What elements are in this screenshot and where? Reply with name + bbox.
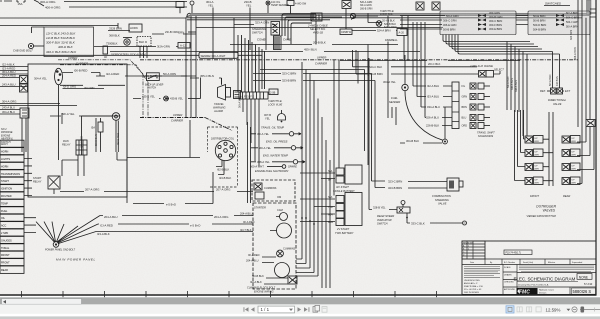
drops from switch area <box>234 18 266 59</box>
outrigger valve F4 <box>525 177 543 185</box>
regulator box <box>288 276 297 284</box>
pid number cell <box>504 250 532 255</box>
wire ORN arrow left <box>178 31 196 35</box>
terminal circle top <box>190 1 194 13</box>
wire riser x368 <box>367 58 369 165</box>
border ruler ticks <box>22 291 437 297</box>
battery group2 wires <box>300 195 335 224</box>
wire 56I riser <box>61 113 63 124</box>
cluster2 right pin labels <box>566 11 579 29</box>
harness elbow lines <box>186 13 190 18</box>
throttle bell symbol <box>278 110 286 122</box>
wire 323-C BRN lower <box>372 74 448 184</box>
button last page <box>304 307 309 312</box>
cluster2 arrows <box>556 14 564 26</box>
title text ELEC SCHEMATIC DIAGRAM <box>514 273 597 282</box>
button first page <box>244 307 249 312</box>
button prev page <box>251 307 255 312</box>
wire long bus y18 <box>0 17 186 19</box>
solenoid pair row5 <box>470 123 490 129</box>
wires from BLK D down <box>140 46 147 58</box>
junction ring component <box>112 113 120 121</box>
junction dots on risers <box>301 217 315 225</box>
wire I23-A BLK long <box>96 232 253 236</box>
stubs from terminal column <box>24 159 36 233</box>
bundle risers far <box>322 117 330 288</box>
outrigger valve R1 <box>562 136 580 144</box>
wires run relay <box>82 116 121 152</box>
zone boundary UPPER/CARRIER dash-dot <box>68 56 578 66</box>
cummins block bolt label <box>247 287 276 294</box>
disclaimer microtext right <box>519 266 594 271</box>
cab ground bolt <box>13 43 34 52</box>
wire CC-B RED <box>145 74 159 78</box>
battery group2 label <box>335 227 354 235</box>
outrigger valve F1 <box>525 136 543 144</box>
elbow corner 20I-B BLK <box>367 45 369 77</box>
aux contact box 2 <box>255 192 264 199</box>
wire I00-B RED <box>63 69 101 77</box>
cluster1 outline <box>440 11 516 35</box>
wire 204-A BLU long <box>100 215 253 219</box>
engine dashed enclosure <box>253 203 296 289</box>
connector 2-0B <box>269 89 278 95</box>
cell divider lines <box>462 265 596 295</box>
scale drawn rows <box>503 266 517 291</box>
wire list box <box>44 27 94 57</box>
outrigger valve R3 <box>562 163 580 171</box>
left harness connector B <box>20 84 28 92</box>
spare fuel shutdown <box>250 165 297 173</box>
ignition switch cylinder <box>55 68 63 84</box>
fuse 15A lower <box>91 122 103 132</box>
wire 455-C BLN <box>190 74 222 85</box>
risers from heater <box>22 118 26 152</box>
wires strip down <box>243 99 259 166</box>
page combo box <box>258 306 295 313</box>
wire 328-B YEL <box>369 206 397 210</box>
wire y27.5 <box>196 27 443 29</box>
start relay label <box>33 176 42 184</box>
engine stub labels <box>240 212 264 285</box>
solenoid pair row2 <box>470 94 490 100</box>
gray harness bus horizontal <box>190 13 589 16</box>
wire 304-A BLU upper-d <box>0 110 20 114</box>
wire riser from junction <box>444 107 446 139</box>
junction box top a <box>416 2 424 10</box>
part number <box>572 288 596 294</box>
horn bar box <box>129 24 142 32</box>
label travel warning alarm <box>213 102 226 113</box>
harness corner feeds to trans shift <box>413 86 426 118</box>
wire riser to rear steer switch <box>368 58 370 210</box>
cluster2 left pin labels <box>533 14 546 32</box>
connector cluster shade left <box>440 11 516 35</box>
engine aux dashed box <box>252 180 295 201</box>
wire 524-A BRN <box>352 29 397 33</box>
wire bolt to list box <box>34 45 44 47</box>
ground bolt fan wires <box>36 216 100 244</box>
wire 323-B BRN lower <box>375 81 447 191</box>
header row <box>462 241 596 265</box>
pin function labels <box>462 85 468 128</box>
revision table <box>462 241 485 259</box>
trans shift wires to strip <box>442 86 452 126</box>
cluster2 outline <box>528 11 590 35</box>
combination steering valve <box>447 178 463 191</box>
terminal strip TB1 <box>239 92 268 99</box>
fuse block vertical <box>126 64 128 76</box>
engine stub wires <box>262 217 288 285</box>
run relay label <box>62 139 71 147</box>
drawing number line <box>517 282 578 287</box>
battery group1 wires <box>300 169 335 182</box>
vertical risers inside panel <box>59 85 119 160</box>
layout button 4 disabled <box>536 307 541 312</box>
icon export page <box>313 305 320 312</box>
wire 230-B YEL drop <box>244 0 252 50</box>
connector box A-20 <box>397 29 407 36</box>
steering switch <box>252 27 266 35</box>
wire 204-A RED <box>0 74 20 78</box>
outrigger valves title <box>527 205 557 219</box>
front valve right stubs <box>543 139 553 181</box>
steering switch contacts box <box>271 22 280 36</box>
FMC logo <box>517 288 538 295</box>
switches header <box>544 2 570 6</box>
wire y17.5 <box>187 17 582 19</box>
horn component circle <box>124 39 130 45</box>
rear feeder risers <box>577 127 594 184</box>
gauge eng oil press <box>251 140 303 151</box>
label 2-4WD CABLE SELECT SW <box>307 24 328 35</box>
zoom slider knob <box>581 307 585 313</box>
trans shift wire rows <box>426 84 440 128</box>
gauge eng water temp <box>251 154 305 165</box>
connector cluster shade right <box>528 11 590 35</box>
battery feed risers <box>334 60 339 196</box>
wires to throttle lock <box>368 13 402 28</box>
wire list black wires <box>46 32 77 55</box>
distributor and coil <box>211 138 236 161</box>
wire I22-A BLK <box>0 63 28 67</box>
layout button 3 disabled <box>527 307 532 312</box>
cluster1 right pin labels <box>489 11 503 31</box>
far right verticals <box>578 0 590 127</box>
wire 323-C BRN upper <box>253 72 372 76</box>
relay box BLK D dashed <box>137 37 151 47</box>
wire 304-A ORG bottom left <box>0 100 77 106</box>
distributor leads <box>216 160 224 175</box>
travel warning alarm speaker <box>218 78 231 100</box>
wire 50I-A ORN <box>159 72 200 99</box>
wire 520-A BRN <box>384 26 397 29</box>
drawing bottom border <box>0 294 597 296</box>
label EXT <box>563 89 571 93</box>
comb w box <box>340 29 352 35</box>
wire 56I-A YEL <box>50 112 112 116</box>
solenoid pair row3 <box>470 104 490 110</box>
tolerance rows <box>464 280 484 294</box>
big rect region D right <box>127 120 200 203</box>
wire 312A-GRN <box>94 45 178 49</box>
rear steer indicator lamp <box>401 201 405 208</box>
bundle risers right of engine <box>302 62 318 276</box>
wire 304-A YEL drop <box>206 0 214 59</box>
backup lever switch label <box>145 84 164 90</box>
wire 231-B ORG <box>152 30 196 34</box>
layout button 2 disabled <box>517 307 522 312</box>
logo division text <box>539 289 555 295</box>
coil component box <box>234 91 241 99</box>
junction node double circle <box>443 139 448 144</box>
toolbar background <box>0 304 600 314</box>
heavy elbow corners to steering bundle <box>282 14 316 44</box>
status strip <box>0 316 600 319</box>
wire I0I-D ORG <box>63 85 105 89</box>
stub corner <box>32 27 45 33</box>
left terminal column boxes <box>0 140 24 273</box>
inline connector circle <box>350 13 355 19</box>
alternator small circle <box>277 250 284 257</box>
wire 524-B BRN <box>356 50 478 76</box>
harness risers x412-425 <box>413 22 425 118</box>
power panel ground bolt <box>53 242 59 248</box>
wire y19.5 <box>187 19 330 21</box>
4wd switch box <box>287 1 307 6</box>
button next page <box>298 307 302 312</box>
tolerance cell microtext <box>464 267 500 278</box>
distributor dashed enclosure <box>208 127 238 187</box>
label 004-B YEL <box>264 113 271 121</box>
cluster1 left pin labels <box>443 14 459 32</box>
wire 333-C BLK <box>406 213 466 225</box>
throttle lock sol labels <box>380 9 395 23</box>
oil temp sender <box>266 1 289 13</box>
zone boundary corner near x170 <box>140 113 232 131</box>
inter column risers <box>549 112 553 186</box>
layout button selected <box>506 306 514 313</box>
throttle lock valve label <box>268 99 283 107</box>
trans shift solenoids label <box>477 131 495 139</box>
bundle elbows to engine <box>296 259 318 276</box>
wire 324 feeder <box>260 70 365 152</box>
cluster1 arrows <box>478 14 486 31</box>
select switch box pair <box>311 13 322 21</box>
center vertical harness bundle <box>238 35 265 92</box>
title block outer frame <box>462 241 596 295</box>
label RET <box>540 89 551 93</box>
border verticals x186-196 <box>186 15 196 118</box>
backup lever switch <box>147 73 160 81</box>
starter solenoid circle <box>280 213 288 221</box>
wire 300-A ORG <box>34 0 187 4</box>
wire I0I-A RED long <box>98 224 253 228</box>
firebell circle <box>376 21 382 27</box>
two wheel alarm range select label <box>469 65 504 72</box>
zoom dropdown caret <box>567 309 571 311</box>
gauge trans oil temp <box>251 126 301 137</box>
range select switch boxes <box>479 71 501 78</box>
gray harness bus vertical right <box>587 0 592 15</box>
battery group1 terminals <box>336 165 362 184</box>
solenoid pair row1 <box>470 83 490 89</box>
divider above logo <box>517 287 596 295</box>
drawing right border <box>595 0 597 295</box>
relay risers inside panel <box>54 152 127 194</box>
trans shift connector strip <box>452 82 459 129</box>
outrigger valve F2 <box>525 149 543 157</box>
run relay box <box>76 140 87 155</box>
comb cane switch box hatched <box>274 36 282 50</box>
zoom slider tick <box>594 308 596 312</box>
directional valve label <box>548 98 567 106</box>
wire 323-A ORN <box>234 21 275 25</box>
wire 20I-C BLK long <box>340 61 520 66</box>
fuel sender <box>383 55 408 104</box>
icon print disabled <box>322 307 327 313</box>
propane heater switch label <box>1 128 13 144</box>
wire 304-A BLU <box>0 70 28 74</box>
wire 243-A BLU <box>0 83 28 87</box>
combination steering valve label <box>432 194 451 206</box>
battery group1 label <box>333 185 355 193</box>
curved harness drop from fuel sender <box>405 91 443 141</box>
wires linking top cluster <box>291 6 379 45</box>
rear steer indicator switch label <box>377 214 394 226</box>
wire risers into engine top <box>248 122 251 203</box>
elbow corner 455 <box>357 52 359 84</box>
start relay box <box>48 176 60 189</box>
wire 435-B YEL with inline connector <box>133 95 201 101</box>
wire SENRE 301-A WHT <box>0 52 262 58</box>
cab zone boundary dash-dot <box>58 60 148 118</box>
wire 323-B BRN upper <box>253 79 375 83</box>
node 3328 BRN <box>108 27 130 31</box>
zoom out circle-minus <box>572 307 577 312</box>
fuse 15A top-left <box>0 0 25 6</box>
outrigger feeder risers <box>515 110 526 181</box>
wire I22-A RED <box>96 72 196 76</box>
svg-text:12.59%: 12.59% <box>546 307 561 312</box>
heater switch component <box>20 108 29 118</box>
rear steer switch box <box>397 207 410 213</box>
wire 368 BLK <box>109 34 132 38</box>
scrollbar thumb <box>2 299 82 305</box>
wire 207-A ORG long <box>60 188 253 192</box>
directional valve coils <box>551 88 563 94</box>
scale NONE box <box>577 274 592 280</box>
wire e-5 B+D long <box>133 172 213 207</box>
resistor 7300 BLK <box>103 42 118 60</box>
solenoid pair row4 <box>470 115 490 121</box>
wire riser x392 <box>392 107 396 125</box>
harness risers x388 x404 x408 <box>388 16 408 118</box>
wire 243-A BLU upper-d <box>0 106 20 110</box>
wires into cluster1 <box>400 16 445 30</box>
wires 50x rows right of cluster1 <box>516 9 596 25</box>
zoom slider rail <box>580 309 600 311</box>
wire 304-B BLK <box>400 139 442 143</box>
wire I30 ORD <box>60 85 125 90</box>
harness verticals right <box>507 42 527 137</box>
aux contact box 1 <box>254 183 262 190</box>
wire 201-B BLK <box>230 41 398 45</box>
scrollbar left arrow <box>3 300 6 304</box>
power panel enclosure <box>28 64 127 197</box>
wire 520-B BLK <box>384 23 396 26</box>
wire 524-C BLK <box>353 50 478 69</box>
wire 400-A ORG <box>39 3 187 10</box>
outrigger valve R2 <box>562 149 580 157</box>
connector box A-12 <box>178 43 190 49</box>
outrigger valve F3 <box>525 163 543 171</box>
left harness connector A <box>20 76 28 84</box>
top cluster box 3 <box>342 1 351 9</box>
svg-text:1 / 1: 1 / 1 <box>261 307 270 312</box>
junction box top b <box>432 2 440 10</box>
rear connector box <box>586 120 595 127</box>
wire 455-I BLN <box>110 48 420 52</box>
wire y25 <box>0 23 118 28</box>
wire I23-A RED <box>0 67 28 71</box>
alternator big circle <box>275 263 290 278</box>
starter motor circle <box>277 223 292 238</box>
scrollbar track <box>0 297 600 304</box>
battery group2 terminals <box>336 193 362 226</box>
net labels top right cluster <box>360 1 373 10</box>
outrigger valve R4 <box>562 177 580 185</box>
top small box x176 <box>176 2 184 14</box>
nested elbow bundle up-right <box>443 35 560 89</box>
